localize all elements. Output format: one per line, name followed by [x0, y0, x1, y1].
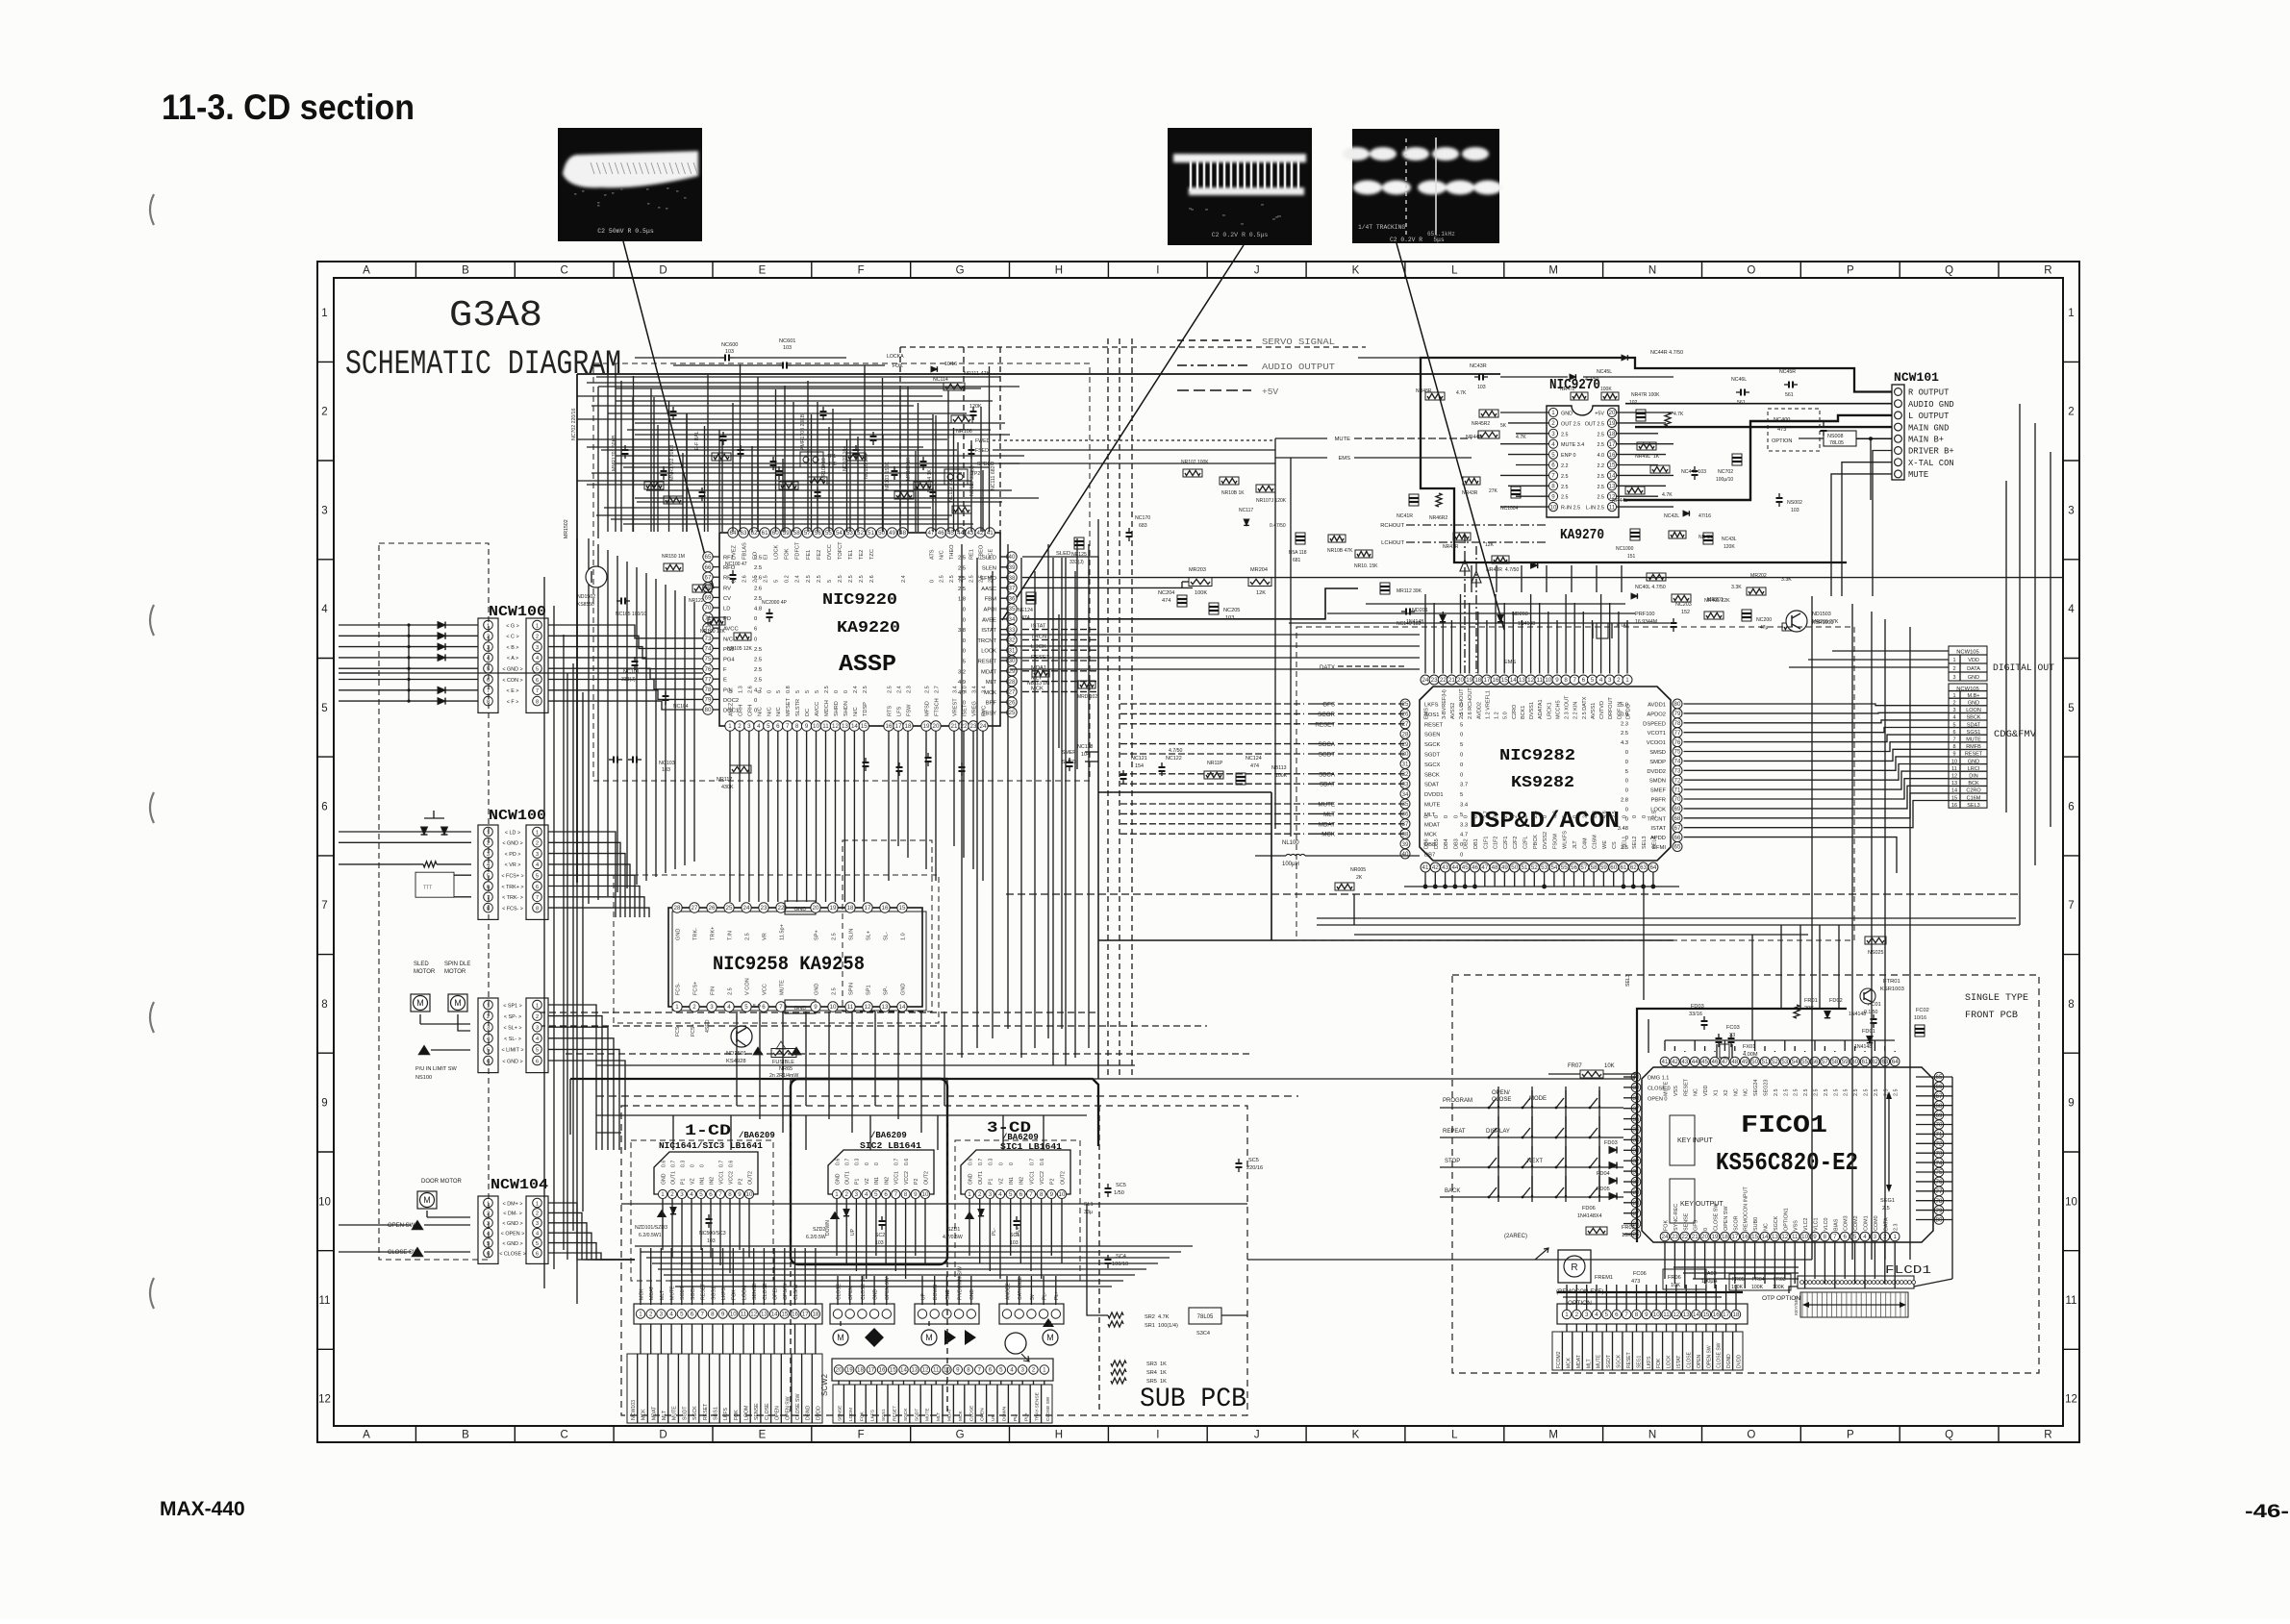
svg-text:52: 52 [1772, 1059, 1778, 1065]
svg-text:RE1: RE1 [969, 549, 974, 560]
svg-text:E-F BAL: E-F BAL [694, 431, 700, 450]
svg-text:12: 12 [750, 1312, 757, 1318]
svg-text:NR122: NR122 [689, 598, 704, 604]
svg-text:32: 32 [1402, 771, 1409, 778]
svg-text:103: 103 [783, 345, 792, 351]
svg-text:10K: 10K [1604, 1063, 1615, 1069]
svg-text:< SP1 >: < SP1 > [503, 1003, 521, 1009]
svg-text:DRIVER B+: DRIVER B+ [1908, 447, 1954, 457]
svg-text:MUTE: MUTE [672, 1406, 678, 1420]
svg-text:OPS/W: OPS/W [783, 1284, 789, 1300]
svg-text:2: 2 [1032, 1367, 1036, 1374]
svg-text:0: 0 [1703, 1228, 1709, 1231]
svg-text:M: M [925, 1333, 933, 1342]
svg-text:2.4: 2.4 [795, 575, 801, 583]
svg-text:80: 80 [1936, 1217, 1943, 1224]
svg-text:SEG24: SEG24 [1753, 1080, 1759, 1096]
svg-text:ND1503: ND1503 [1812, 612, 1831, 617]
svg-text:1: 1 [1043, 1367, 1046, 1374]
svg-text:1: 1 [968, 1191, 971, 1198]
svg-text:DRF IN: DRF IN [1617, 702, 1623, 719]
svg-text:DATA: DATA [1967, 666, 1980, 672]
svg-text:MNR1701 50KB: MNR1701 50KB [612, 435, 617, 471]
svg-text:GND: GND [873, 1289, 879, 1301]
svg-text:3: 3 [680, 1191, 684, 1198]
svg-text:CRH: CRH [739, 705, 744, 716]
svg-text:SDAT: SDAT [1967, 722, 1981, 728]
svg-text:C2RO: C2RO [1512, 704, 1518, 719]
svg-text:SYNC-REC: SYNC-REC [1673, 1204, 1679, 1231]
svg-text:-46-: -46- [2245, 1502, 2289, 1522]
svg-text:0: 0 [1573, 815, 1578, 818]
svg-text:19: 19 [846, 1367, 853, 1374]
svg-text:75: 75 [1936, 1169, 1943, 1176]
svg-text:5: 5 [805, 690, 811, 693]
svg-text:333(J): 333(J) [621, 677, 636, 683]
svg-text:10: 10 [1550, 504, 1557, 511]
svg-text:58: 58 [1831, 1059, 1838, 1065]
svg-text:2.5: 2.5 [1833, 1089, 1839, 1097]
svg-text:< VR >: < VR > [505, 862, 521, 868]
svg-text:39: 39 [1402, 841, 1409, 848]
svg-text:0.6: 0.6 [904, 1159, 910, 1165]
svg-text:13: 13 [761, 1312, 768, 1318]
svg-text:0: 0 [1642, 815, 1648, 818]
svg-text:DB5: DB5 [1434, 838, 1440, 849]
svg-text:44: 44 [1451, 864, 1458, 871]
svg-text:5: 5 [963, 660, 966, 665]
svg-text:37: 37 [1402, 821, 1409, 828]
svg-text:OPEN: OPEN [773, 1286, 779, 1300]
svg-text:E: E [759, 265, 767, 277]
svg-text:9: 9 [1551, 493, 1555, 500]
svg-text:N/C: N/C [940, 550, 945, 560]
svg-text:2.5: 2.5 [754, 658, 762, 663]
svg-text:2: 2 [536, 1014, 539, 1020]
svg-text:2.5: 2.5 [1561, 485, 1569, 490]
svg-text:5: 5 [774, 580, 780, 583]
svg-text:TRCNT: TRCNT [977, 638, 996, 644]
svg-text:3.4: 3.4 [982, 686, 988, 693]
svg-text:13: 13 [1683, 1312, 1690, 1318]
svg-text:NC200: NC200 [1756, 617, 1772, 623]
svg-text:H: H [1055, 265, 1063, 277]
svg-text:TTT: TTT [423, 886, 432, 891]
svg-text:DB4: DB4 [1444, 838, 1449, 849]
svg-text:0.3: 0.3 [855, 1159, 861, 1165]
svg-text:11: 11 [933, 1367, 940, 1374]
svg-text:NR47R 100K: NR47R 100K [1631, 392, 1660, 398]
svg-text:LKFS: LKFS [1647, 1356, 1652, 1368]
svg-text:5: 5 [767, 723, 770, 730]
svg-text:NC: NC [1694, 1088, 1699, 1096]
svg-text:CLOSE: CLOSE [1687, 1351, 1693, 1368]
svg-text:A: A [363, 265, 370, 277]
svg-text:2: 2 [321, 407, 327, 418]
svg-text:1: 1 [1565, 1312, 1569, 1318]
svg-text:0: 0 [1460, 772, 1463, 778]
svg-text:0: 0 [690, 1164, 695, 1167]
svg-text:0: 0 [1444, 815, 1449, 818]
svg-text:NC118: NC118 [1077, 744, 1093, 750]
svg-text:VLC0: VLC0 [1824, 1218, 1829, 1232]
svg-text:0: 0 [754, 637, 757, 642]
svg-text:6: 6 [536, 1059, 539, 1064]
svg-text:10: 10 [730, 1312, 737, 1318]
svg-text:4.0: 4.0 [1598, 453, 1605, 459]
svg-text:B: B [462, 1430, 469, 1441]
svg-text:TE1: TE1 [848, 550, 854, 560]
svg-text:DOWN: DOWN [1002, 1406, 1008, 1421]
svg-text:25: 25 [1402, 701, 1409, 708]
svg-text:2.3: 2.3 [1593, 811, 1598, 818]
svg-text:NC105 100/10: NC105 100/10 [616, 612, 646, 617]
svg-text:DOOR MOTOR: DOOR MOTOR [421, 1179, 463, 1185]
svg-text:76: 76 [705, 666, 712, 673]
svg-text:MDAT: MDAT [649, 1286, 655, 1300]
svg-text:16.9344M: 16.9344M [1635, 619, 1657, 625]
svg-text:MLT: MLT [1586, 1359, 1592, 1368]
svg-text:OUT1: OUT1 [978, 1171, 984, 1185]
svg-text:SPIN: SPIN [849, 983, 855, 995]
svg-text:L OUTPUT: L OUTPUT [1908, 412, 1950, 421]
svg-text:VSS: VSS [1673, 1086, 1679, 1096]
svg-text:64: 64 [1892, 1059, 1899, 1065]
svg-text:SMEF: SMEF [1650, 788, 1667, 794]
svg-text:1.2: 1.2 [1495, 712, 1500, 719]
svg-text:0: 0 [729, 690, 735, 693]
svg-text:4: 4 [1599, 677, 1603, 684]
svg-text:PL-: PL- [992, 1228, 997, 1236]
svg-text:SGCX: SGCX [1424, 762, 1441, 768]
svg-text:3.7: 3.7 [1494, 811, 1499, 818]
svg-text:KA9270: KA9270 [1560, 527, 1604, 543]
svg-text:G3A8: G3A8 [449, 295, 542, 337]
svg-text:27K: 27K [1489, 488, 1498, 494]
svg-text:28: 28 [1009, 679, 1016, 686]
svg-text:0: 0 [1543, 815, 1548, 818]
svg-text:47: 47 [928, 530, 935, 537]
svg-text:VDD: VDD [1968, 658, 1979, 663]
svg-text:12: 12 [865, 1004, 871, 1011]
svg-text:16: 16 [879, 1367, 886, 1374]
svg-text:FOK: FOK [859, 1411, 865, 1421]
svg-text:2: 2 [1503, 815, 1509, 818]
svg-text:69: 69 [1936, 1112, 1943, 1119]
svg-text:3.7: 3.7 [1460, 783, 1468, 788]
svg-text:4: 4 [1551, 441, 1555, 448]
svg-text:13: 13 [1519, 677, 1525, 684]
svg-text:VLC2: VLC2 [1803, 1218, 1809, 1232]
svg-text:GND: GND [1968, 675, 1979, 681]
svg-text:R-IN 2.5: R-IN 2.5 [1561, 506, 1580, 512]
svg-text:PBCK: PBCK [1533, 835, 1539, 849]
svg-text:4.6: 4.6 [1602, 811, 1608, 818]
svg-text:2.5: 2.5 [1864, 1089, 1870, 1097]
svg-text:7: 7 [536, 895, 539, 901]
svg-text:C2F2: C2F2 [1513, 837, 1519, 849]
svg-text:3: 3 [536, 1026, 539, 1032]
svg-text:N/C: N/C [776, 707, 782, 716]
svg-text:3: 3 [855, 1191, 859, 1198]
svg-text:21: 21 [951, 723, 958, 730]
svg-text:FSED: FSED [975, 448, 989, 454]
svg-text:SEL3: SEL3 [1642, 837, 1648, 849]
svg-text:SCOR: SCOR [1733, 1215, 1739, 1231]
svg-text:8: 8 [1824, 1234, 1827, 1240]
svg-text:48: 48 [1492, 864, 1498, 871]
svg-text:15: 15 [899, 905, 906, 912]
svg-text:11: 11 [847, 1004, 854, 1011]
svg-text:5: 5 [1460, 722, 1463, 728]
svg-text:0: 0 [963, 608, 966, 613]
svg-text:NC100 47: NC100 47 [725, 562, 747, 567]
svg-text:SEL1: SEL1 [1623, 837, 1628, 849]
svg-text:/BA6209: /BA6209 [870, 1131, 907, 1140]
svg-text:7: 7 [1624, 1312, 1628, 1318]
svg-text:M: M [1548, 265, 1558, 277]
svg-text:23: 23 [1672, 1234, 1678, 1240]
svg-text:NC46L: NC46L [1731, 377, 1747, 383]
svg-text:78: 78 [1674, 720, 1681, 727]
svg-text:68: 68 [1674, 815, 1681, 822]
svg-text:NR45R2: NR45R2 [1472, 421, 1490, 427]
svg-text:NC103: NC103 [659, 761, 675, 766]
svg-text:FCS+: FCS+ [693, 982, 699, 995]
svg-text:19: 19 [923, 723, 930, 730]
svg-text:11: 11 [741, 1312, 747, 1318]
svg-text:< C >: < C > [506, 635, 518, 640]
svg-text:/BA6209: /BA6209 [739, 1131, 775, 1140]
svg-text:SPDLO: SPDLO [977, 462, 994, 467]
svg-text:2.5: 2.5 [859, 575, 865, 583]
svg-text:NC702: NC702 [1718, 469, 1733, 475]
svg-text:5: 5 [1460, 792, 1463, 798]
svg-text:OPEN SW: OPEN SW [388, 1223, 415, 1229]
svg-text:ADATA1: ADATA1 [1538, 699, 1544, 719]
svg-text:SMEF: SMEF [1062, 750, 1075, 756]
svg-text:0: 0 [1464, 815, 1470, 818]
svg-text:0.7: 0.7 [978, 1159, 984, 1165]
svg-text:5: 5 [536, 874, 539, 880]
svg-text:24: 24 [743, 905, 750, 912]
svg-text:14: 14 [1693, 1312, 1699, 1318]
svg-text:30: 30 [1402, 751, 1409, 758]
svg-text:P1: P1 [680, 1179, 686, 1185]
svg-text:FOK: FOK [734, 1410, 740, 1420]
svg-text:5: 5 [1551, 452, 1555, 459]
svg-text:3: 3 [1952, 675, 1955, 681]
svg-text:BCK: BCK [1968, 781, 1979, 787]
svg-text:DRFOUT: DRFOUT [1608, 696, 1614, 719]
svg-text:78: 78 [1936, 1198, 1943, 1205]
svg-text:SMDP: SMDP [1649, 760, 1666, 765]
svg-text:17: 17 [1609, 441, 1616, 448]
svg-text:4: 4 [321, 604, 328, 615]
svg-text:MODE: MODE [1529, 1096, 1547, 1102]
svg-text:NC44R 4.7/50: NC44R 4.7/50 [1650, 350, 1683, 356]
svg-text:E: E [759, 1430, 767, 1441]
svg-text:15: 15 [1751, 1234, 1758, 1240]
svg-text:8: 8 [1952, 744, 1955, 750]
svg-text:< DM- >: < DM- > [503, 1212, 521, 1217]
svg-text:N: N [1648, 1430, 1656, 1441]
svg-text:ISTAT: ISTAT [981, 628, 996, 634]
svg-text:MLT: MLT [660, 1289, 666, 1300]
svg-text:REPEAT: REPEAT [1443, 1129, 1466, 1135]
svg-text:FSW: FSW [907, 704, 913, 716]
svg-text:NC: NC [1764, 1223, 1770, 1231]
svg-text:NS025: NS025 [1868, 950, 1883, 956]
svg-text:6: 6 [1843, 1234, 1847, 1240]
svg-text:SENSE: SENSE [838, 1406, 843, 1421]
svg-text:154: 154 [1135, 763, 1144, 769]
svg-text:2.3 XOUT: 2.3 XOUT [1565, 695, 1571, 719]
svg-text:2: 2 [738, 723, 742, 730]
svg-text:58: 58 [1591, 864, 1598, 871]
svg-text:SGDT: SGDT [682, 1406, 688, 1420]
svg-text:5: 5 [536, 667, 539, 673]
svg-text:7: 7 [1551, 473, 1555, 480]
svg-text:UP: UP [850, 1228, 856, 1236]
svg-text:NCW105: NCW105 [1956, 650, 1979, 656]
svg-text:2.5: 2.5 [806, 575, 812, 583]
svg-text:474: 474 [1162, 598, 1170, 604]
svg-text:< F >: < F > [507, 699, 519, 705]
svg-text:2.5: 2.5 [1844, 1089, 1850, 1097]
svg-text:C1F1: C1F1 [1483, 837, 1489, 849]
svg-text:LOOM: LOOM [848, 1408, 854, 1421]
svg-text:17: 17 [1483, 677, 1490, 684]
svg-text:I: I [1156, 265, 1159, 277]
svg-text:120K: 120K [1724, 544, 1735, 550]
svg-text:8: 8 [2068, 999, 2074, 1011]
svg-text:9: 9 [1555, 677, 1559, 684]
svg-text:3: 3 [1020, 1367, 1024, 1374]
svg-text:27: 27 [692, 905, 698, 912]
svg-text:C2FL: C2FL [1523, 837, 1529, 849]
svg-text:OUT1: OUT1 [845, 1171, 851, 1185]
svg-text:0: 0 [1625, 760, 1628, 765]
svg-text:< GND >: < GND > [502, 841, 522, 847]
svg-text:9: 9 [738, 1191, 742, 1198]
svg-text:73: 73 [1936, 1150, 1943, 1157]
svg-text:78: 78 [705, 687, 712, 693]
svg-text:2.6 RCHOUT: 2.6 RCHOUT [1468, 687, 1473, 719]
svg-text:8: 8 [967, 1367, 970, 1374]
svg-text:38: 38 [1402, 831, 1409, 837]
svg-text:< B >: < B > [507, 645, 519, 651]
svg-text:FCE: FCE [989, 549, 994, 560]
svg-text:2.5: 2.5 [1598, 485, 1605, 490]
svg-text:7: 7 [786, 723, 790, 730]
svg-text:17: 17 [865, 905, 871, 912]
svg-text:19: 19 [1712, 1234, 1719, 1240]
svg-text:8: 8 [728, 1191, 732, 1198]
svg-text:SC4: SC4 [1116, 1254, 1126, 1260]
svg-text:FWED: FWED [975, 438, 991, 444]
svg-text:NR44L: NR44L [1612, 498, 1627, 504]
svg-text:2.5: 2.5 [888, 686, 893, 693]
svg-text:3: 3 [1952, 708, 1955, 713]
svg-text:19: 19 [1466, 677, 1472, 684]
svg-text:DB3: DB3 [1453, 838, 1459, 849]
svg-text:LOON: LOON [1966, 708, 1981, 713]
svg-text:ND203: ND203 [1512, 612, 1528, 617]
svg-text:6: 6 [989, 1367, 993, 1374]
svg-text:MFSET: MFSET [786, 697, 792, 716]
svg-text:40: 40 [1402, 851, 1409, 858]
svg-text:6: 6 [1582, 677, 1586, 684]
svg-text:MUTE: MUTE [1908, 470, 1928, 480]
svg-text:VSS: VSS [1794, 1220, 1799, 1231]
svg-text:151: 151 [1627, 554, 1636, 560]
svg-text:SZD2: SZD2 [813, 1227, 825, 1233]
svg-text:2.5: 2.5 [949, 575, 955, 583]
svg-text:NR46R2: NR46R2 [1429, 515, 1447, 521]
svg-text:BIAS: BIAS [1833, 1218, 1839, 1231]
svg-text:MR202: MR202 [1750, 573, 1767, 579]
svg-text:TZC: TZC [869, 549, 875, 560]
svg-text:0: 0 [699, 1164, 705, 1167]
svg-text:14: 14 [1762, 1234, 1769, 1240]
svg-text:7: 7 [2068, 900, 2074, 912]
svg-text:AUDIO OUTPUT: AUDIO OUTPUT [1262, 362, 1335, 372]
svg-text:O: O [1747, 265, 1755, 277]
svg-text:0.1/50: 0.1/50 [1864, 1010, 1878, 1015]
svg-text:DOWN: DOWN [825, 1220, 831, 1236]
svg-text:57: 57 [1822, 1059, 1828, 1065]
svg-text:4.8: 4.8 [754, 607, 762, 612]
svg-text:SDAT: SDAT [1320, 782, 1335, 788]
svg-text:70: 70 [1936, 1122, 1943, 1129]
svg-text:0.3: 0.3 [989, 1159, 994, 1165]
svg-text:OPEN: OPEN [1697, 1354, 1702, 1368]
svg-text:MUTE 3.4: MUTE 3.4 [1561, 442, 1584, 448]
svg-text:C4M: C4M [1582, 837, 1588, 849]
svg-text:2.5: 2.5 [1561, 495, 1569, 501]
svg-text:CLOSE: CLOSE [836, 1283, 842, 1300]
svg-text:DATX: DATX [1320, 664, 1335, 671]
svg-text:K: K [1352, 1430, 1360, 1441]
svg-text:LOCKA: LOCKA [887, 354, 904, 360]
svg-text:51: 51 [868, 530, 874, 537]
svg-text:7: 7 [894, 1191, 898, 1198]
svg-text:NR10. 15K: NR10. 15K [1354, 563, 1378, 569]
svg-text:K: K [1352, 265, 1360, 277]
svg-text:48: 48 [1731, 1059, 1738, 1065]
svg-text:14: 14 [899, 1004, 906, 1011]
svg-text:10: 10 [2065, 1196, 2077, 1208]
svg-text:(2AREC): (2AREC) [1504, 1234, 1527, 1239]
svg-text:RESET: RESET [1626, 1352, 1632, 1368]
svg-text:ASSP: ASSP [839, 652, 896, 678]
svg-text:1: 1 [675, 1004, 679, 1011]
svg-text:DATA: DATA [1883, 1217, 1889, 1231]
svg-text:63: 63 [1640, 864, 1647, 871]
svg-text:50: 50 [1751, 1059, 1758, 1065]
svg-text:< TRK- >: < TRK- > [502, 895, 523, 901]
svg-text:AVSS2: AVSS2 [1450, 703, 1456, 719]
svg-text:NC2000 4P: NC2000 4P [762, 600, 788, 606]
svg-text:SGDT: SGDT [1606, 1355, 1612, 1368]
svg-text:COM3: COM3 [1844, 1215, 1850, 1231]
svg-text:42: 42 [1432, 864, 1439, 871]
svg-text:30: 30 [1009, 658, 1016, 664]
svg-text:11: 11 [2066, 1295, 2077, 1307]
svg-text:5: 5 [1460, 742, 1463, 748]
svg-text:1: 1 [728, 723, 732, 730]
